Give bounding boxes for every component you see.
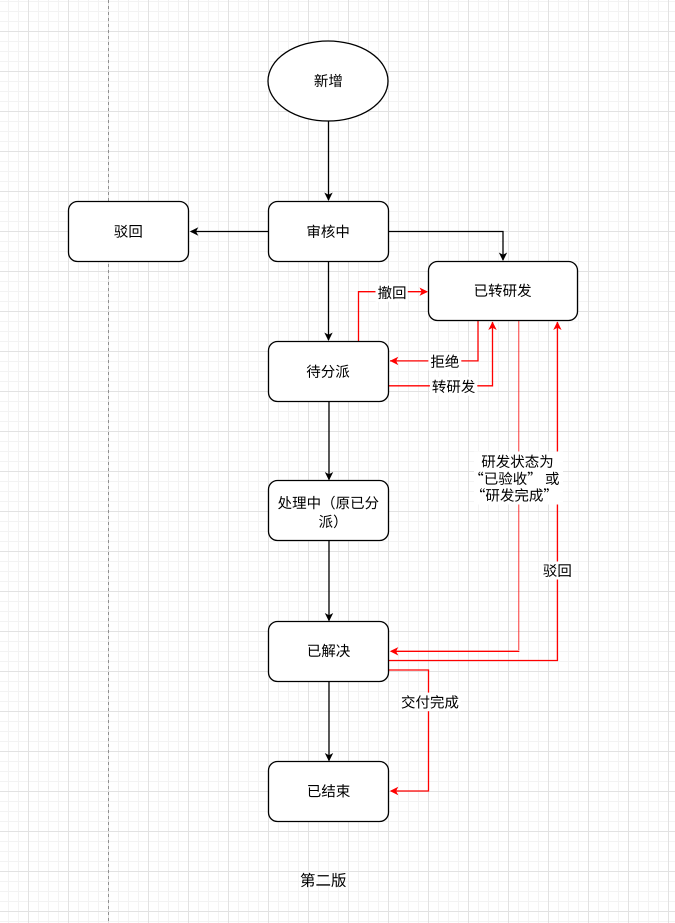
box 已解决	[269, 622, 389, 682]
wire 交付完成: 已解决→已结束	[389, 670, 429, 791]
label 研发状态为“已验收”或“研发完成”	[474, 452, 563, 505]
wire 拒绝: 已转研发→待分派	[390, 321, 478, 361]
box 驳回	[69, 202, 189, 262]
box 处理中（原已分派）	[269, 481, 389, 541]
label 交付完成	[399, 693, 461, 712]
ellipse 新增	[268, 41, 388, 121]
wire 撤回: 待分派→已转研发	[359, 292, 428, 342]
box 已结束	[269, 762, 389, 822]
box 审核中	[269, 202, 389, 262]
wire 转研发: 待分派→已转研发	[389, 322, 493, 386]
wire 新增→审核中	[328, 121, 330, 200]
text 第二版	[301, 873, 346, 887]
label 转研发	[430, 377, 477, 396]
label 撤回	[376, 283, 408, 302]
wire 研发状态为已验收或研发完成: 已转研发→已解决	[518, 321, 520, 651]
page divider dashed line	[108, 0, 110, 923]
wire 处理中→已解决	[328, 541, 330, 621]
box 已转研发	[429, 262, 578, 321]
label 驳回 (red line)	[541, 562, 573, 580]
wire 待分派→处理中	[328, 402, 330, 480]
wire 审核中→已转研发	[389, 232, 503, 261]
wire 审核中→驳回	[191, 231, 269, 233]
wire 审核中→待分派	[328, 262, 330, 341]
label 拒绝	[428, 352, 461, 370]
wire 已解决→已结束	[328, 682, 330, 761]
wire 驳回: 已解决→已转研发	[389, 322, 558, 661]
box 待分派	[269, 342, 389, 402]
